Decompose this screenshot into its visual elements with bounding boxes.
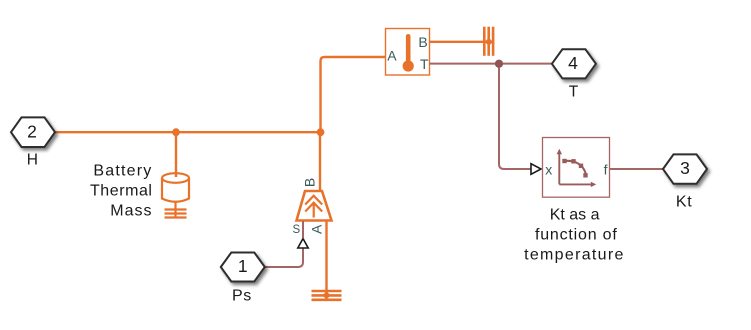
svg-text:S: S: [292, 224, 300, 236]
thermal reference top right: [484, 27, 493, 56]
junction at thermal mass branch: [172, 128, 180, 136]
svg-text:2: 2: [27, 121, 37, 141]
svg-text:temperature: temperature: [524, 247, 625, 264]
wire branch down to thermal mass: [175, 132, 177, 177]
svg-text:T: T: [420, 56, 429, 72]
svg-text:A: A: [387, 48, 397, 64]
wire heat source A down to ground: [325, 221, 327, 296]
lookup table block: [543, 138, 610, 198]
svg-text:4: 4: [568, 53, 578, 73]
port 3 hexagon: [663, 154, 707, 183]
wire sensor B to thermal reference: [430, 41, 490, 43]
curve: [565, 161, 586, 176]
svg-text:3: 3: [680, 158, 690, 178]
ground connection diamond: [322, 291, 330, 299]
svg-text:function of: function of: [535, 227, 618, 244]
wire lookup f to port 3: [610, 168, 663, 170]
port 4 hexagon: [552, 49, 596, 78]
PS input triangle: [531, 164, 541, 175]
svg-text:Kt: Kt: [676, 193, 693, 210]
S input triangle: [298, 239, 308, 249]
wire Ps to S input: [264, 248, 304, 267]
wire riser up to sensor A: [321, 57, 387, 132]
svg-text:A: A: [308, 224, 324, 234]
thermal mass icon (cylinder): [162, 173, 189, 217]
wire riser down to heat source B: [319, 132, 321, 191]
heat source arrow: [305, 196, 322, 218]
svg-text:H: H: [27, 151, 38, 168]
temperature sensor block: [386, 29, 430, 76]
thermal reference connection diamond: [485, 38, 493, 46]
svg-text:Mass: Mass: [110, 203, 152, 220]
svg-text:Ps: Ps: [232, 287, 252, 304]
wire junction down to lookup input: [499, 64, 531, 169]
thermal reference bottom (ground): [312, 291, 342, 300]
svg-text:1: 1: [238, 256, 248, 276]
svg-text:Battery: Battery: [93, 163, 152, 180]
stub S triangle to port: [302, 221, 304, 239]
svg-text:B: B: [301, 178, 317, 187]
svg-text:Thermal: Thermal: [90, 183, 153, 200]
wire H to riser: [55, 131, 321, 133]
heat source trapezoid: [297, 191, 332, 221]
wire sensor T to port 4: [430, 63, 552, 65]
svg-text:x: x: [545, 161, 552, 177]
axis: [559, 153, 591, 184]
svg-text:T: T: [569, 84, 579, 101]
svg-text:B: B: [418, 34, 427, 50]
svg-text:f: f: [604, 161, 608, 177]
junction at riser: [317, 128, 325, 136]
junction on T wire: [495, 60, 503, 68]
thermometer: [406, 36, 411, 64]
port 2 hexagon: [11, 117, 55, 147]
svg-text:Kt as a: Kt as a: [550, 206, 600, 223]
port 1 hexagon: [221, 253, 265, 282]
